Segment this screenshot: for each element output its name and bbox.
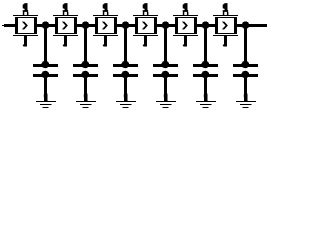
wire: shunt drop from node N3 to capacitor C3: [124, 27, 127, 64]
top plate bar of U3: [93, 15, 118, 16]
capacitor C3 (two T-bar electrodes with junction dots): [113, 61, 138, 79]
pin label 1 (top pin of U5) with open-square pin marker: [183, 3, 189, 15]
pin label 1 (bottom pin of C3 branch): [124, 94, 128, 101]
top plate bar of U1: [13, 15, 38, 16]
ground symbol G1: [36, 101, 56, 108]
wire: from capacitor C3 down to ground: [124, 76, 127, 101]
pin label 1 (bottom pin of C4 branch): [164, 94, 168, 101]
series device U6 (box with > symbol): [215, 17, 237, 34]
pin label 1 (top pin of U1) with open-square pin marker: [23, 3, 29, 15]
series device U3 (box with > symbol): [95, 17, 117, 34]
pin label 1 (bottom pin of C1 branch): [44, 94, 48, 101]
pin label 1 (bottom pin of C6 branch): [244, 94, 248, 101]
wire: from capacitor C4 down to ground: [164, 76, 167, 101]
top plate bar of U6: [213, 15, 238, 16]
series device U2 (box with > symbol): [55, 17, 77, 34]
wire: shunt drop from node N1 to capacitor C1: [44, 27, 47, 64]
pin label 1 (top pin of U2) with open-square pin marker: [63, 3, 69, 15]
pin label 1 (bottom pin of C2 branch): [84, 94, 88, 101]
bottom pin stub of U3 with rotated 1 label: [103, 36, 107, 47]
capacitor C4 (two T-bar electrodes with junction dots): [153, 61, 178, 79]
node N2 (junction dot on bus): [82, 21, 90, 29]
capacitor C2 (two T-bar electrodes with junction dots): [73, 61, 98, 79]
node N3 (junction dot on bus): [122, 21, 130, 29]
ground symbol G3: [116, 101, 136, 108]
node N5 (junction dot on bus): [202, 21, 210, 29]
ground symbol G2: [76, 101, 96, 108]
series device U1 (box with > symbol): [15, 17, 37, 34]
top plate bar of U2: [53, 15, 78, 16]
bottom plate bar of U1: [13, 35, 38, 36]
ground symbol G5: [196, 101, 216, 108]
bottom pin stub of U2 with rotated 1 label: [63, 36, 67, 47]
wire: from capacitor C6 down to ground: [244, 76, 247, 101]
capacitor C5 (two T-bar electrodes with junction dots): [193, 61, 218, 79]
series device U5 (box with > symbol): [175, 17, 197, 34]
node N1 (junction dot on bus): [42, 21, 50, 29]
pin label 1 (top pin of U4) with open-square pin marker: [143, 3, 149, 15]
ground symbol G6: [236, 101, 256, 108]
wire: shunt drop from node N4 to capacitor C4: [164, 27, 167, 64]
capacitor C6 (two T-bar electrodes with junction dots): [233, 61, 258, 79]
wire: from capacitor C1 down to ground: [44, 76, 47, 101]
bottom pin stub of U5 with rotated 1 label: [183, 36, 187, 47]
top plate bar of U4: [133, 15, 158, 16]
wire: shunt drop from node N5 to capacitor C5: [204, 27, 207, 64]
bottom plate bar of U6: [213, 35, 238, 36]
node N6 (junction dot on bus): [242, 21, 250, 29]
wire: left pointed tip of bus: [2, 25, 4, 26]
top plate bar of U5: [173, 15, 198, 16]
capacitor C1 (two T-bar electrodes with junction dots): [33, 61, 58, 79]
wire: from capacitor C5 down to ground: [204, 76, 207, 101]
wire: main horizontal bus (top rail): [4, 24, 267, 27]
bottom plate bar of U4: [133, 35, 158, 36]
bottom plate bar of U5: [173, 35, 198, 36]
wire: shunt drop from node N2 to capacitor C2: [84, 27, 87, 64]
pin label 1 (top pin of U3) with open-square pin marker: [103, 3, 109, 15]
pin label 1 (bottom pin of C5 branch): [204, 94, 208, 101]
bottom pin stub of U4 with rotated 1 label: [143, 36, 147, 47]
ground symbol G4: [156, 101, 176, 108]
bottom plate bar of U2: [53, 35, 78, 36]
series device U4 (box with > symbol): [135, 17, 157, 34]
bottom plate bar of U3: [93, 35, 118, 36]
bottom pin stub of U1 with rotated 1 label: [23, 36, 27, 47]
bottom pin stub of U6 with rotated 1 label: [223, 36, 227, 47]
wire: from capacitor C2 down to ground: [84, 76, 87, 101]
pin label 1 (top pin of U6) with open-square pin marker: [223, 3, 229, 15]
node N4 (junction dot on bus): [162, 21, 170, 29]
wire: shunt drop from node N6 to capacitor C6: [244, 27, 247, 64]
